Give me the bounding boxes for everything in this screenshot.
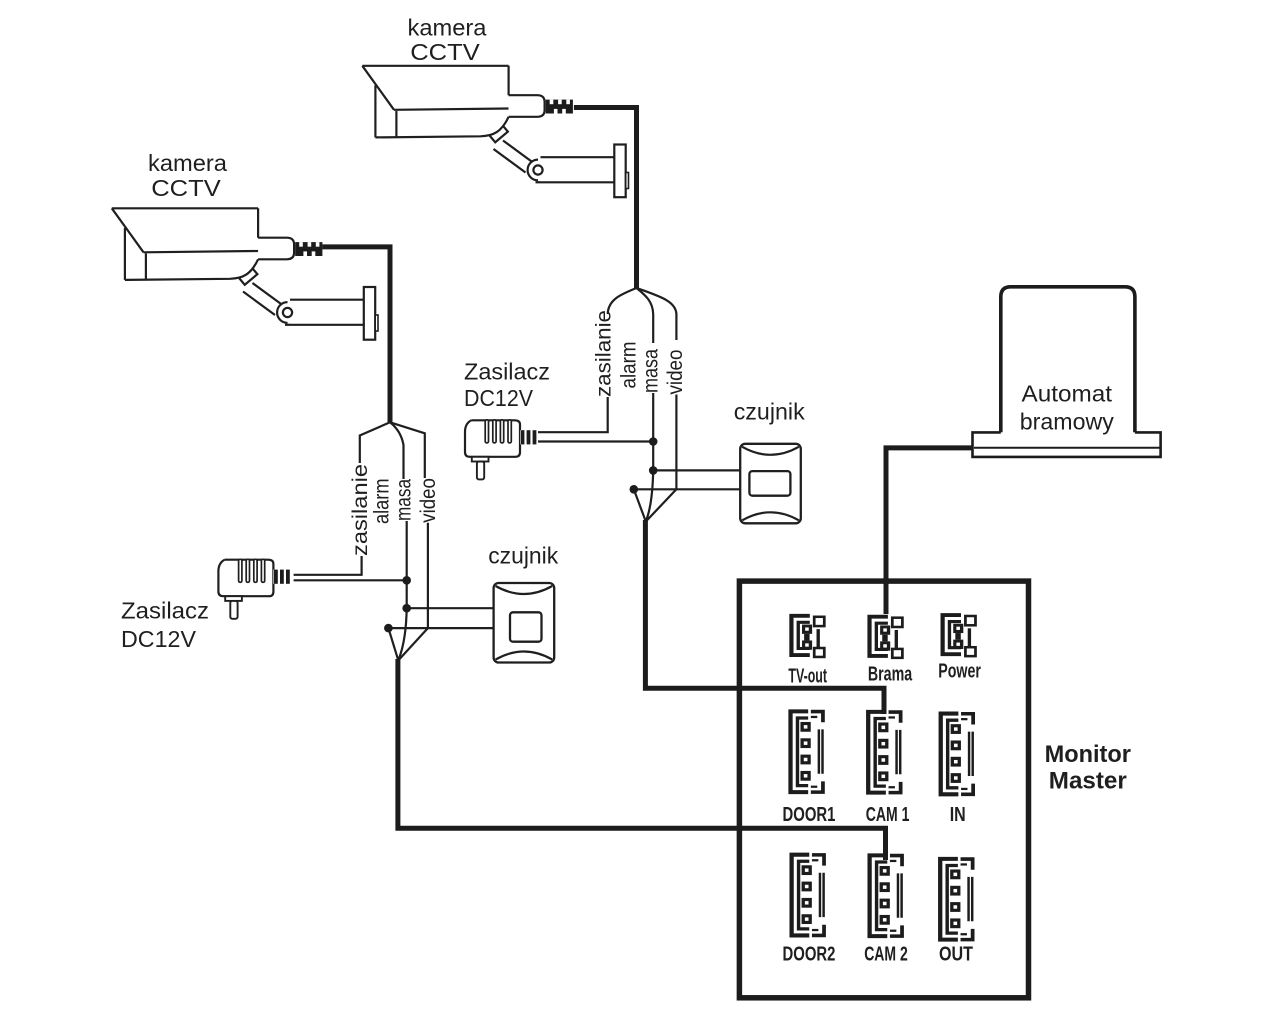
svg-text:CAM 2: CAM 2 (864, 944, 908, 966)
svg-text:DC12V: DC12V (464, 385, 533, 411)
svg-text:video: video (416, 478, 440, 523)
svg-text:Automat: Automat (1022, 381, 1113, 407)
svg-text:Zasilacz: Zasilacz (121, 598, 209, 624)
svg-text:zasilanie: zasilanie (348, 464, 372, 556)
svg-text:Master: Master (1049, 767, 1127, 794)
svg-text:czujnik: czujnik (488, 543, 558, 569)
svg-text:Monitor: Monitor (1045, 741, 1132, 768)
svg-text:video: video (663, 349, 687, 394)
svg-text:OUT: OUT (939, 944, 973, 966)
svg-text:Brama: Brama (868, 664, 913, 686)
svg-text:kamera: kamera (408, 15, 488, 41)
svg-text:CCTV: CCTV (410, 39, 480, 65)
svg-text:czujnik: czujnik (734, 399, 805, 425)
svg-text:alarm: alarm (617, 342, 641, 389)
svg-text:IN: IN (950, 804, 966, 826)
svg-text:Zasilacz: Zasilacz (464, 359, 550, 385)
svg-text:CCTV: CCTV (151, 175, 221, 201)
svg-text:alarm: alarm (370, 479, 394, 525)
svg-text:CAM 1: CAM 1 (866, 804, 910, 826)
svg-text:zasilanie: zasilanie (592, 310, 616, 397)
svg-text:bramowy: bramowy (1020, 409, 1114, 435)
svg-text:masa: masa (392, 479, 416, 521)
svg-text:TV-out: TV-out (788, 666, 827, 688)
svg-text:DC12V: DC12V (121, 626, 196, 652)
svg-text:Power: Power (938, 661, 981, 683)
svg-text:DOOR1: DOOR1 (783, 804, 836, 826)
svg-text:DOOR2: DOOR2 (783, 944, 836, 966)
svg-text:masa: masa (638, 349, 662, 393)
svg-text:kamera: kamera (148, 150, 228, 176)
